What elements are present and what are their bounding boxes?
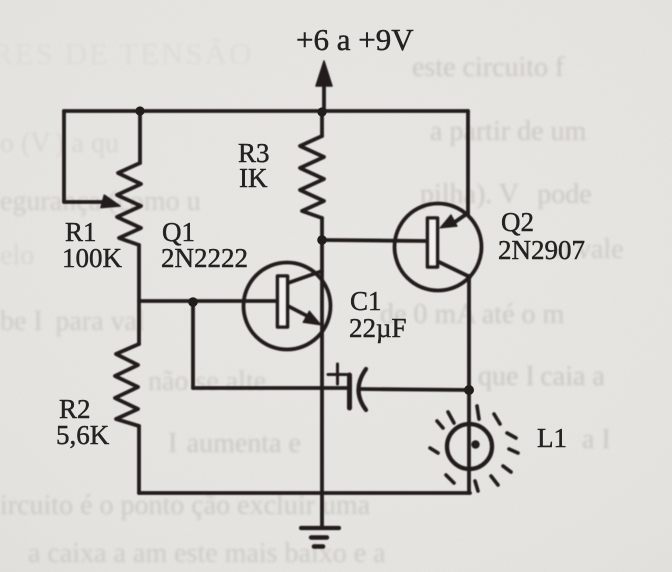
- svg-text:+6 a +9V: +6 a +9V: [296, 22, 414, 57]
- svg-text:2N2907: 2N2907: [498, 235, 585, 265]
- wire R3 top lead: [320, 111, 324, 136]
- label 5,6K: [56, 420, 110, 450]
- resistor R3: [300, 136, 324, 218]
- svg-text:IK: IK: [239, 163, 268, 193]
- node A top rail / R1: [135, 106, 144, 115]
- svg-text:este circuito f: este circuito f: [412, 52, 565, 83]
- node C base / C1 branch: [188, 297, 198, 307]
- svg-text:RES DE TENSÃO: RES DE TENSÃO: [0, 36, 253, 71]
- svg-text:be I para val: be I para val: [0, 306, 145, 337]
- supply arrow: [316, 61, 332, 86]
- svg-text:de 0 mA até o m: de 0 mA até o m: [380, 299, 565, 330]
- wire left pot loop: [64, 111, 106, 202]
- wire bottom rail: [139, 491, 470, 495]
- label 22uF: [349, 313, 407, 343]
- label C1: [350, 286, 382, 316]
- wire supply stem: [322, 82, 326, 111]
- svg-text:22µF: 22µF: [349, 313, 407, 343]
- label Q2: [501, 207, 534, 237]
- wire Q1 base: [139, 299, 276, 303]
- svg-text:I aumenta e: I aumenta e: [168, 428, 301, 459]
- wire Q2 base from R3 node: [322, 240, 427, 241]
- svg-text:100K: 100K: [62, 243, 123, 273]
- R1 wiper arrow: [101, 195, 120, 208]
- label 2N2222: [161, 243, 248, 273]
- svg-text:C1: C1: [350, 286, 382, 316]
- svg-text:a caixa a am este mais baix: a caixa a am este mais baixo e a: [28, 538, 386, 569]
- svg-text:elo: elo: [0, 240, 34, 271]
- wire right column top: [466, 111, 470, 214]
- wire C1 branch horizontal: [193, 386, 347, 390]
- wire R1 top lead: [138, 111, 142, 163]
- svg-text:2N2222: 2N2222: [161, 243, 248, 273]
- label L1: [537, 423, 567, 453]
- resistor R2: [115, 344, 139, 426]
- circuit ink: [64, 61, 518, 547]
- svg-text:não se alte: não se alte: [148, 366, 266, 397]
- wire R2 bottom lead: [137, 426, 141, 493]
- label +6 a +9V: [296, 22, 414, 57]
- label 2N2907: [498, 235, 585, 265]
- node E lamp top: [464, 385, 474, 395]
- label 100K: [62, 243, 123, 273]
- transistor Q1: [244, 263, 331, 350]
- svg-text:a partir de um: a partir de um: [430, 116, 586, 147]
- label R2: [59, 394, 91, 424]
- wire R1 to R2: [137, 245, 141, 344]
- transistor Q2: [395, 204, 482, 291]
- svg-text:o (V ) a qu: o (V ) a qu: [0, 128, 119, 159]
- wire center column to ground: [320, 240, 324, 527]
- lamp L1: [430, 406, 518, 491]
- svg-text:a I: a I: [582, 424, 611, 455]
- wire C1 branch vertical: [191, 302, 195, 388]
- wire right column bottom: [467, 276, 471, 493]
- node B top rail / supply: [317, 107, 326, 116]
- svg-text:5,6K: 5,6K: [56, 420, 110, 450]
- wire top rail: [64, 109, 468, 113]
- svg-text:Q2: Q2: [501, 207, 534, 237]
- label Q1: [162, 217, 195, 247]
- node D R3 bottom: [317, 235, 327, 245]
- wire R3 bottom lead: [320, 218, 324, 240]
- label IK: [239, 163, 268, 193]
- resistor R1: [117, 163, 141, 245]
- ground: [301, 528, 339, 547]
- capacitor C1: [328, 364, 366, 410]
- svg-text:que I caia a: que I caia a: [478, 361, 605, 392]
- svg-text:L1: L1: [537, 423, 567, 453]
- label R3: [238, 138, 270, 168]
- wire C1 to lamp node: [360, 389, 469, 390]
- label R1: [65, 217, 97, 247]
